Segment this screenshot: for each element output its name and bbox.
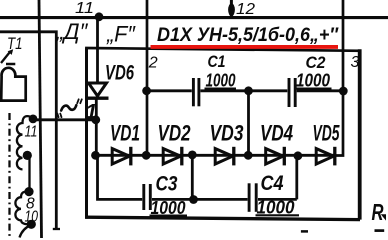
svg-text:D1X УН-5,5/1б-0,6„+″: D1X УН-5,5/1б-0,6„+″ <box>157 25 339 46</box>
svg-text:C3: C3 <box>156 173 178 196</box>
svg-text:11: 11 <box>25 124 38 141</box>
svg-text:3: 3 <box>351 54 360 71</box>
svg-text:VD3: VD3 <box>210 121 244 146</box>
svg-text:11: 11 <box>75 0 94 17</box>
svg-text:12: 12 <box>236 1 255 18</box>
svg-text:„F″: „F″ <box>106 22 136 47</box>
svg-text:R: R <box>372 199 384 225</box>
svg-text:VD6: VD6 <box>105 62 134 85</box>
svg-text:2: 2 <box>148 55 158 72</box>
svg-text:„Д″: „Д″ <box>55 19 88 44</box>
svg-text:1000: 1000 <box>296 71 330 91</box>
svg-text:VD5: VD5 <box>313 121 340 146</box>
svg-text:VD2: VD2 <box>158 121 192 146</box>
svg-text:T1: T1 <box>7 34 23 53</box>
svg-text:VD1: VD1 <box>110 121 140 146</box>
svg-text:1000: 1000 <box>206 71 236 91</box>
svg-text:C1: C1 <box>208 52 226 71</box>
svg-text:1: 1 <box>86 101 98 124</box>
svg-text:C4: C4 <box>261 172 284 195</box>
svg-text:C2: C2 <box>306 53 326 72</box>
svg-text:10: 10 <box>25 209 39 226</box>
svg-text:VD4: VD4 <box>260 121 293 146</box>
